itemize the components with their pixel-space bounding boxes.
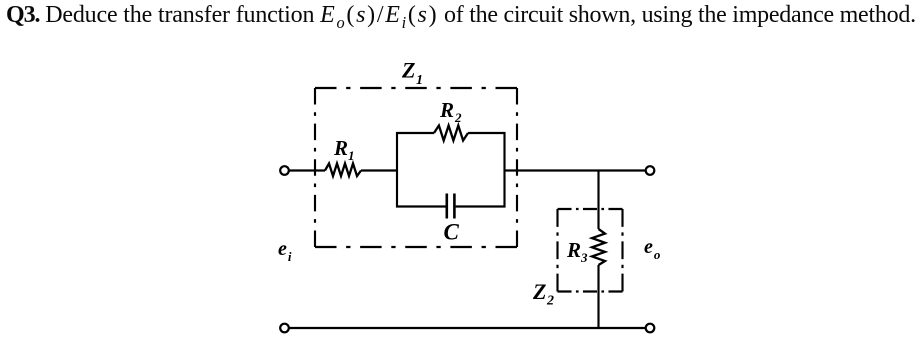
capacitor C plates <box>447 194 455 219</box>
impedance box Z1 (dash-dot) <box>315 88 517 247</box>
bottom terminal right <box>646 324 655 333</box>
output terminal top-right <box>646 166 655 175</box>
bottom rail wire <box>289 327 646 329</box>
wire: input to R1 <box>289 169 325 171</box>
label e_i <box>278 238 292 264</box>
label Z1 <box>401 58 423 89</box>
wire: R3 to bottom rail <box>597 265 599 328</box>
resistor R1 <box>325 164 361 177</box>
wire: parallel block to output node <box>505 169 646 171</box>
impedance box Z2 (dash-dot) <box>558 209 623 292</box>
label C <box>444 220 460 245</box>
wire: R1 to parallel block <box>361 169 397 171</box>
svg-text:C: C <box>444 220 460 245</box>
label R3 <box>566 238 588 265</box>
wire: node down to R3 <box>597 171 599 230</box>
label R2 <box>439 98 462 125</box>
svg-text:ei: ei <box>278 238 292 264</box>
svg-text:R3: R3 <box>566 238 588 265</box>
label Z2 <box>532 279 554 309</box>
svg-text:Z2: Z2 <box>532 279 554 309</box>
bottom terminal left <box>280 324 289 333</box>
svg-text:R1: R1 <box>333 136 355 163</box>
svg-text:R2: R2 <box>439 98 462 125</box>
svg-text:Z1: Z1 <box>401 58 423 89</box>
resistor R2 <box>434 126 468 141</box>
label R1 <box>333 136 355 163</box>
parallel block rectangle (R2 parallel C) <box>397 133 505 207</box>
input terminal top-left <box>280 166 289 175</box>
label e_o <box>644 236 661 262</box>
title: question text <box>6 2 916 33</box>
resistor R3 (vertical) <box>592 229 605 265</box>
svg-text:eo: eo <box>644 236 661 262</box>
